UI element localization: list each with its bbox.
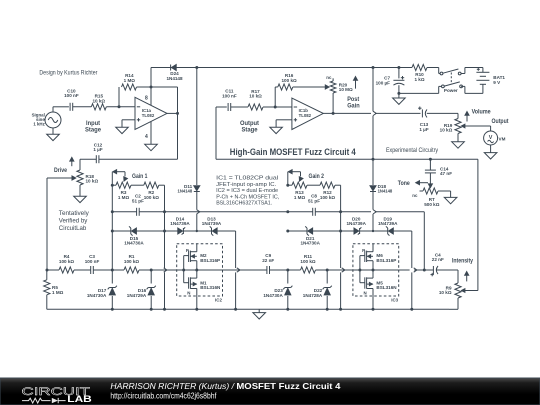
node supply-D11 xyxy=(195,66,198,69)
svg-text:http://circuitlab.com/cm4c62j6: http://circuitlab.com/cm4c62j6s8bhf xyxy=(110,390,217,400)
capacitor C10 xyxy=(64,88,79,110)
zener D14 xyxy=(165,216,191,234)
diode D18 xyxy=(370,184,393,194)
svg-text:1N4728A: 1N4728A xyxy=(303,293,323,298)
wire D19-right xyxy=(393,230,412,232)
svg-text:9 V: 9 V xyxy=(493,80,501,85)
wire bias row left xyxy=(111,211,113,213)
capacitor C8 xyxy=(308,194,320,216)
ground R19 xyxy=(452,142,465,148)
svg-text:BSL316N: BSL316N xyxy=(376,285,397,290)
wire C2 row xyxy=(112,211,136,213)
svg-text:500 kΩ: 500 kΩ xyxy=(424,202,439,207)
node C9-R11 xyxy=(286,269,289,272)
svg-text:1N4730A: 1N4730A xyxy=(300,241,320,246)
svg-text:10 kΩ: 10 kΩ xyxy=(439,290,452,295)
svg-text:100 µF: 100 µF xyxy=(376,80,391,85)
node C7-gnd-rail xyxy=(397,92,400,95)
wire R14 left leg xyxy=(118,87,120,107)
svg-text:LAB: LAB xyxy=(67,394,92,404)
svg-text:Experimental Circuitry: Experimental Circuitry xyxy=(386,148,438,154)
svg-text:1N4730A: 1N4730A xyxy=(124,241,144,246)
zener D19 xyxy=(378,216,398,235)
svg-text:BSL316P: BSL316P xyxy=(376,258,396,263)
node C14 top xyxy=(429,158,432,161)
svg-text:Tentatively: Tentatively xyxy=(59,211,89,217)
node R11-D22 xyxy=(326,269,329,272)
svg-text:100 kΩ: 100 kΩ xyxy=(59,259,74,264)
wire D17-rail xyxy=(111,296,113,309)
transistor pair IC3 M6 M5 xyxy=(353,244,399,303)
svg-text:100 nF: 100 nF xyxy=(222,93,237,98)
svg-text:8: 8 xyxy=(145,95,148,101)
diode D24 xyxy=(166,65,183,81)
wire main row left xyxy=(47,269,59,271)
ground RT xyxy=(444,197,457,203)
op-amp IC1b xyxy=(292,98,323,129)
wire D13-right xyxy=(217,230,236,232)
svg-text:22 nF: 22 nF xyxy=(262,258,274,263)
svg-text:1 kΩ: 1 kΩ xyxy=(414,77,424,82)
wire R15-opamp xyxy=(106,106,135,108)
node C8 right xyxy=(339,210,342,213)
wire plus input IC1a xyxy=(122,119,135,121)
node supply-C7 xyxy=(397,66,400,69)
wire IC1b output xyxy=(323,112,371,114)
arrow Intensity up xyxy=(466,275,468,281)
svg-text:100 kΩ: 100 kΩ xyxy=(124,259,139,264)
wire D14-D13 xyxy=(183,230,211,232)
potentiometer R9 xyxy=(439,283,465,298)
arrow main1 xyxy=(164,268,167,272)
arrow main3 xyxy=(342,268,345,272)
svg-text:Volume: Volume xyxy=(472,109,492,115)
capacitor C9 xyxy=(262,253,274,274)
potentiometer R20 xyxy=(325,75,353,114)
svg-text:P: P xyxy=(186,248,189,253)
ground IC1b plus xyxy=(270,127,283,133)
node D15 right xyxy=(163,230,166,233)
svg-text:10 MΩ: 10 MΩ xyxy=(339,87,353,92)
capacitor C11 xyxy=(222,89,237,111)
svg-text:1 MΩ: 1 MΩ xyxy=(294,195,306,200)
svg-text:BSL316CH6327XTSA1.: BSL316CH6327XTSA1. xyxy=(216,201,272,207)
wire VM-gnd xyxy=(490,145,492,153)
zener D17 xyxy=(87,286,117,298)
zener D23 xyxy=(263,270,292,309)
wire Gain1 loop xyxy=(111,172,113,186)
arrow out row xyxy=(373,111,376,115)
arrow R13 wiper xyxy=(299,177,303,181)
arrow PostGain up xyxy=(355,80,357,89)
svg-text:P-Ch + N-Ch MOSFET IC,: P-Ch + N-Ch MOSFET IC, xyxy=(216,194,279,200)
wire pin8 rail xyxy=(150,68,152,106)
wire plus input IC1b xyxy=(276,119,292,121)
wire IC3 drain rail xyxy=(372,296,374,309)
wire main row mid xyxy=(223,269,267,271)
svg-text:IC2: IC2 xyxy=(215,298,222,303)
wire Gain2 loop xyxy=(287,172,289,186)
wire RT right xyxy=(438,190,451,192)
svg-text:22 nF: 22 nF xyxy=(432,257,444,262)
svg-text:1N4739A: 1N4739A xyxy=(346,221,366,226)
svg-text:CircuitLab: CircuitLab xyxy=(59,226,87,232)
svg-text:IC3: IC3 xyxy=(391,298,398,303)
potentiometer R19 xyxy=(440,119,465,134)
node IC3 rail xyxy=(372,308,375,311)
svg-text:nc: nc xyxy=(412,193,418,198)
svg-text:1N4148: 1N4148 xyxy=(378,188,393,193)
svg-text:1 MΩ: 1 MΩ xyxy=(118,195,130,200)
wire R19 wiper out xyxy=(464,125,490,127)
wire main row right xyxy=(399,269,410,271)
wire D11 col xyxy=(196,68,198,186)
svg-text:1N4730A: 1N4730A xyxy=(263,293,283,298)
wire Drive wiper xyxy=(47,177,73,179)
svg-text:Verified by: Verified by xyxy=(59,219,88,225)
wire C11-R17 xyxy=(231,106,248,108)
svg-text:Gain 1: Gain 1 xyxy=(132,174,148,180)
ground bottom rail xyxy=(253,309,266,319)
arrow main2 xyxy=(237,268,240,272)
svg-text:VM: VM xyxy=(499,136,506,141)
svg-text:1N4739A: 1N4739A xyxy=(378,221,398,226)
node D21 left xyxy=(286,230,289,233)
wire D18 col xyxy=(372,68,374,112)
node D16 rail xyxy=(150,308,153,311)
zener D22 xyxy=(303,270,332,309)
potentiometer RT xyxy=(412,184,439,207)
svg-text:TL082: TL082 xyxy=(299,113,312,118)
wire C12-R18 xyxy=(79,159,81,170)
svg-text:IC1 = TL082CP dual: IC1 = TL082CP dual xyxy=(216,176,278,182)
node C8 left xyxy=(286,210,289,213)
capacitor C13 xyxy=(418,107,429,132)
wire R11-right xyxy=(316,269,353,271)
zener D20 xyxy=(341,216,367,234)
node D21 right xyxy=(339,230,342,233)
wire IC1a output xyxy=(167,112,178,114)
arrow Drive up xyxy=(71,161,73,167)
svg-text:BSL316N: BSL316N xyxy=(200,285,221,290)
svg-text:4: 4 xyxy=(145,134,148,140)
svg-text:100 kΩ: 100 kΩ xyxy=(320,195,335,200)
wire C13-R19 xyxy=(427,112,458,114)
wire IC2 drain rail xyxy=(196,296,198,309)
wire R9 wiper out xyxy=(464,290,478,292)
svg-text:1 µF: 1 µF xyxy=(419,127,428,132)
svg-text:100 kΩ: 100 kΩ xyxy=(300,259,315,264)
wire R18-gnd xyxy=(79,185,81,196)
arrow main4 xyxy=(414,268,417,272)
resistor R11 xyxy=(300,254,315,273)
svg-text:1N4148: 1N4148 xyxy=(166,76,183,81)
svg-text:100 kΩ: 100 kΩ xyxy=(144,195,159,200)
ground VM xyxy=(484,153,497,159)
node IC2 rail xyxy=(195,308,198,311)
resistor R1 xyxy=(124,254,139,273)
ground IC1a pin4 xyxy=(145,144,158,150)
svg-text:47 nF: 47 nF xyxy=(440,171,452,176)
wire R16 left leg xyxy=(274,87,276,107)
node R16 left xyxy=(274,106,277,109)
wire C11 lead xyxy=(216,106,227,108)
wire D11-down xyxy=(196,192,198,210)
node R2col-rail xyxy=(163,308,166,311)
svg-text:Input: Input xyxy=(86,121,100,127)
wire D21 row xyxy=(288,230,307,232)
capacitor C14 xyxy=(425,159,452,184)
node A main xyxy=(111,269,114,272)
svg-text:Post: Post xyxy=(347,97,359,103)
transistor pair IC2 M2 M1 xyxy=(177,244,223,303)
svg-text:High-Gain MOSFET Fuzz Circuit: High-Gain MOSFET Fuzz Circuit 4 xyxy=(230,147,357,158)
wire supply rail xyxy=(151,67,412,69)
svg-text:100 kΩ: 100 kΩ xyxy=(282,78,297,83)
node R14-pin8 xyxy=(150,86,153,89)
node D13-rail xyxy=(234,308,237,311)
node C8r rail xyxy=(339,308,342,311)
wire col425 xyxy=(423,212,425,270)
node IC1a output xyxy=(176,112,179,115)
wire C8 row xyxy=(288,211,313,213)
svg-text:N: N xyxy=(187,290,190,295)
node D19-rail xyxy=(410,308,413,311)
node C2 right xyxy=(163,210,166,213)
node D17 rail xyxy=(111,308,114,311)
wire C11 col xyxy=(215,107,217,159)
svg-text:HARRISON RICHTER (Kurtus) / MO: HARRISON RICHTER (Kurtus) / MOSFET Fuzz … xyxy=(110,381,340,391)
zener D13 xyxy=(202,216,222,235)
svg-text:1N4729A: 1N4729A xyxy=(127,293,147,298)
svg-text:10 kΩ: 10 kΩ xyxy=(86,179,99,184)
wire R17-IC1b xyxy=(263,106,292,108)
svg-text:N: N xyxy=(364,290,367,295)
switch SW1 Power xyxy=(399,68,483,94)
battery BAT1 xyxy=(476,68,505,85)
wire feedback to output xyxy=(151,86,178,88)
svg-text:1N4148: 1N4148 xyxy=(178,188,193,193)
resistor R10 xyxy=(412,64,427,82)
svg-text:51 pF: 51 pF xyxy=(308,198,320,203)
svg-text:1 kHz: 1 kHz xyxy=(33,122,45,127)
signal source V1 xyxy=(32,107,61,128)
wire R13-R12 xyxy=(307,184,320,186)
svg-text:TL082: TL082 xyxy=(142,113,155,118)
wire R2-down xyxy=(159,184,165,186)
wire bias row right xyxy=(341,211,371,213)
capacitor C3 xyxy=(85,254,100,274)
node R3 left xyxy=(111,184,114,187)
svg-text:10 kΩ: 10 kΩ xyxy=(249,94,262,99)
arrow Tone left xyxy=(419,182,428,184)
ground IC1a plus xyxy=(116,127,129,133)
node supply-D18 xyxy=(372,66,375,69)
svg-text:Gain: Gain xyxy=(347,103,360,109)
node D23 rail xyxy=(286,308,289,311)
svg-text:1 MΩ: 1 MΩ xyxy=(52,290,64,295)
svg-text:10 kΩ: 10 kΩ xyxy=(92,98,105,103)
arrow Gain2 left xyxy=(288,170,292,174)
diode D11 xyxy=(178,184,200,194)
wire R19-gnd xyxy=(457,134,459,142)
wire main row IC2 xyxy=(177,269,223,271)
wire D20-D19 xyxy=(360,230,388,232)
ground R18 xyxy=(74,196,87,202)
wire R12-down xyxy=(335,184,341,186)
svg-text:Stage: Stage xyxy=(242,127,259,133)
wire D18-down xyxy=(372,192,374,210)
svg-text:1 MΩ: 1 MΩ xyxy=(124,78,136,83)
svg-text:Tone: Tone xyxy=(398,181,411,187)
svg-text:1N4739A: 1N4739A xyxy=(170,221,190,226)
resistor R13 xyxy=(288,182,307,200)
capacitor C7 xyxy=(376,68,405,94)
wire source-C10 xyxy=(53,106,69,108)
node D22 rail xyxy=(326,308,329,311)
node main-drive xyxy=(46,269,49,272)
svg-text:Design by Kurtus Richter: Design by Kurtus Richter xyxy=(39,69,98,76)
resistor R5 xyxy=(44,270,64,309)
svg-text:Power: Power xyxy=(444,88,458,93)
potentiometer R18 xyxy=(72,170,98,185)
arrow Gain1 left xyxy=(113,170,117,174)
zener D21 xyxy=(300,226,320,245)
svg-text:51 pF: 51 pF xyxy=(132,198,144,203)
wire pin4 xyxy=(150,121,152,144)
resistor R14 xyxy=(122,73,152,90)
svg-text:Stage: Stage xyxy=(85,127,102,133)
wire R1-right xyxy=(139,269,177,271)
node D20-col xyxy=(372,230,374,232)
arrow R3 wiper xyxy=(124,177,128,181)
wire C10-R15 xyxy=(73,106,92,108)
svg-text:100 nF: 100 nF xyxy=(85,259,100,264)
node D15 left xyxy=(111,230,114,233)
resistor R2 xyxy=(144,182,159,200)
svg-text:IC2 = IC3 = dual E-mode: IC2 = IC3 = dual E-mode xyxy=(216,188,278,194)
resistor R12 xyxy=(320,182,335,200)
arrow row212-2 xyxy=(373,210,376,214)
wire R9-rail xyxy=(457,298,459,309)
ground C7 xyxy=(393,93,406,104)
node R20 bottom xyxy=(332,112,335,115)
svg-text:BSL316P: BSL316P xyxy=(200,258,220,263)
resistor R3 xyxy=(112,182,131,200)
svg-text:JFET-input op-amp IC.: JFET-input op-amp IC. xyxy=(216,182,276,188)
svg-text:10 kΩ: 10 kΩ xyxy=(440,128,453,133)
svg-text:Output: Output xyxy=(492,119,509,125)
svg-text:100 nF: 100 nF xyxy=(64,93,79,98)
node D11-diode-row xyxy=(196,230,198,232)
arrow Volume up xyxy=(466,115,468,122)
wire C12 row xyxy=(80,158,96,160)
op-amp IC1a xyxy=(135,95,167,140)
node D18-box xyxy=(372,158,375,161)
wire D15 row xyxy=(112,230,131,232)
voltmeter VM xyxy=(484,131,506,145)
zener D16 xyxy=(127,270,156,309)
wire column A xyxy=(111,185,113,283)
node main-col425 xyxy=(423,269,426,272)
capacitor C4 xyxy=(431,252,444,276)
svg-text:Drive: Drive xyxy=(54,168,68,174)
svg-text:Output: Output xyxy=(240,121,259,127)
node R1-D16 xyxy=(150,269,153,272)
svg-text:1N4739A: 1N4739A xyxy=(202,221,222,226)
svg-text:Intensity: Intensity xyxy=(452,259,474,265)
ground source xyxy=(47,128,60,141)
capacitor C12 xyxy=(93,142,102,163)
svg-text:1 µF: 1 µF xyxy=(93,147,102,152)
node R13 left xyxy=(286,184,289,187)
resistor R4 xyxy=(59,254,74,273)
zener D15 xyxy=(124,226,144,245)
wire box bottom xyxy=(216,158,478,160)
capacitor C2 xyxy=(132,194,144,216)
footer bar xyxy=(0,378,540,405)
resistor R16 xyxy=(275,73,329,90)
node R14 left xyxy=(118,105,121,108)
svg-text:Gain 2: Gain 2 xyxy=(309,174,325,180)
wire C4-R9 xyxy=(457,270,459,283)
svg-text:P: P xyxy=(362,248,365,253)
resistor R15 xyxy=(91,94,106,110)
resistor R17 xyxy=(248,89,263,110)
wire main row IC3 xyxy=(353,269,399,271)
wire R3-R2 xyxy=(131,184,144,186)
wire bottom rail xyxy=(47,308,449,310)
arrow row212-1 xyxy=(197,210,200,214)
node C2 left xyxy=(111,210,114,213)
svg-text:1N4730A: 1N4730A xyxy=(87,293,107,298)
svg-text:nc: nc xyxy=(326,75,332,80)
